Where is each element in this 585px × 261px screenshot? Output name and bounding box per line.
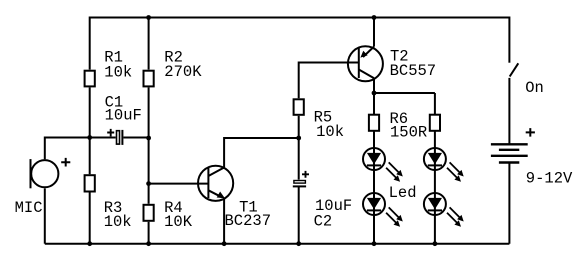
wire T1 emitter to ground rail xyxy=(223,199,225,244)
junction node top rail / T2 emitter xyxy=(372,15,377,20)
capacitor C2 plus sign xyxy=(302,171,309,178)
LED D4 triangle xyxy=(428,198,442,209)
LED D4 cathode bar xyxy=(428,209,442,211)
wire middle rail R4 bottom to ground rail xyxy=(148,222,150,244)
resistor R6 left xyxy=(369,115,379,131)
wire T2 emitter lead from top rail xyxy=(373,17,375,47)
junction ground rail / right LED branch xyxy=(433,241,438,246)
svg-text:10k: 10k xyxy=(104,63,132,81)
resistor R5 xyxy=(294,99,304,115)
transistor T1 collector diagonal xyxy=(208,168,224,177)
battery B1 plate short upper xyxy=(499,149,519,151)
transistor T2 collector diagonal xyxy=(359,70,374,79)
junction node C R5/T1 collector/C2 xyxy=(296,136,301,141)
junction node A MIC/R1/C1/R3 xyxy=(87,135,92,140)
resistor R2 xyxy=(144,71,154,87)
junction node C1 / middle rail xyxy=(146,136,151,141)
resistor R4 xyxy=(144,205,154,221)
LED D4 body xyxy=(424,193,446,215)
wire node A to C1 left plate xyxy=(90,137,116,139)
transistor T2 emitter diagonal xyxy=(363,47,374,58)
wire middle rail R2 bottom through node B to R4 top xyxy=(148,88,150,204)
LED D3 cathode bar xyxy=(428,164,442,166)
wire C2 bottom plate to ground rail xyxy=(298,186,300,243)
svg-text:270K: 270K xyxy=(164,63,202,81)
microphone MIC body xyxy=(31,160,58,187)
wire T1 base xyxy=(149,183,209,185)
svg-text:9-12V: 9-12V xyxy=(526,169,573,187)
microphone MIC element bar xyxy=(30,159,32,188)
LED D3 triangle xyxy=(428,153,442,164)
junction node top rail / R2 xyxy=(146,15,151,20)
wire R5 bottom to node C xyxy=(298,116,300,138)
switch S1 blade xyxy=(510,63,519,76)
wire top supply rail xyxy=(90,17,510,19)
LED D1 cathode bar xyxy=(367,164,381,166)
transistor T2 body xyxy=(348,46,383,81)
svg-text:BC237: BC237 xyxy=(225,212,272,230)
battery B1 plus sign xyxy=(526,128,535,137)
LED D4 light arrows xyxy=(447,207,464,226)
microphone MIC plus sign xyxy=(61,158,70,167)
wire C1 right plate to middle rail xyxy=(123,137,148,139)
wire middle rail R2 top xyxy=(148,17,150,70)
transistor T1 emitter arrowhead xyxy=(217,192,225,199)
battery B1 plate short bottom xyxy=(499,161,519,163)
LED D1 light arrows xyxy=(386,162,403,181)
LED D2 light arrows xyxy=(386,207,403,226)
wire switch bottom to battery top plate xyxy=(508,78,510,144)
battery B1 plate long lower xyxy=(491,155,528,157)
svg-text:10K: 10K xyxy=(164,213,193,231)
junction ground rail / R4 xyxy=(146,241,151,246)
transistor T2 base bar xyxy=(358,48,360,78)
svg-text:MIC: MIC xyxy=(15,199,43,217)
wire node D to right LED branch xyxy=(374,92,435,94)
LED D1 triangle xyxy=(367,153,381,164)
LED D3 body xyxy=(424,148,446,170)
capacitor C1 plus sign xyxy=(107,129,114,137)
junction ground rail / T1 emitter xyxy=(222,241,227,246)
wire R5 top to T2 base xyxy=(299,63,359,99)
wire left rail R1 bottom to R3 top xyxy=(89,88,91,175)
LED D3 light arrows xyxy=(447,162,464,181)
svg-text:150R: 150R xyxy=(390,124,427,142)
wire MIC top to node A xyxy=(45,138,90,160)
wire battery bottom plate to ground rail xyxy=(508,163,510,244)
transistor T2 emitter arrowhead xyxy=(360,51,367,58)
LED D2 cathode bar xyxy=(367,209,381,211)
svg-text:On: On xyxy=(525,79,544,97)
capacitor C2 negative plate xyxy=(293,185,306,187)
wire MIC bottom to ground rail xyxy=(44,188,46,243)
capacitor C1 negative plate xyxy=(121,130,123,145)
junction ground rail / left LED branch xyxy=(372,241,377,246)
capacitor C2 positive plate xyxy=(294,181,306,184)
wire node C to C2 top plate xyxy=(298,138,300,180)
transistor T1 base bar xyxy=(207,168,209,198)
junction node B middle rail / T1 base xyxy=(146,181,151,186)
wire left rail R3 bottom to ground rail xyxy=(89,193,91,244)
wire right LED branch xyxy=(434,93,436,244)
LED D2 triangle xyxy=(367,198,381,209)
wire T1 collector to node C xyxy=(224,138,299,168)
LED D1 body xyxy=(363,148,385,170)
resistor R6 right xyxy=(430,115,440,131)
resistor R1 xyxy=(85,71,95,87)
junction ground rail / R3 xyxy=(87,241,92,246)
svg-text:10k: 10k xyxy=(104,213,132,231)
LED D2 body xyxy=(363,193,385,215)
svg-text:BC557: BC557 xyxy=(390,62,437,80)
wire left rail R1 top xyxy=(89,17,91,70)
svg-text:Led: Led xyxy=(389,184,417,202)
wire T2 collector lead to node D xyxy=(373,78,375,93)
wire right rail top to switch xyxy=(508,17,510,63)
battery B1 plate long top xyxy=(491,143,528,145)
junction node D T2 collector / LED branches xyxy=(372,91,377,96)
capacitor C1 positive plate xyxy=(117,131,120,144)
resistor R3 xyxy=(85,175,95,191)
junction ground rail / C2 xyxy=(296,241,301,246)
transistor T1 emitter diagonal xyxy=(208,190,222,197)
wire bottom ground rail xyxy=(45,243,510,245)
svg-text:10uF: 10uF xyxy=(105,107,142,125)
wire left LED branch xyxy=(373,93,375,244)
transistor T1 body xyxy=(198,166,233,201)
svg-text:10k: 10k xyxy=(316,123,344,141)
svg-text:C2: C2 xyxy=(314,213,333,231)
